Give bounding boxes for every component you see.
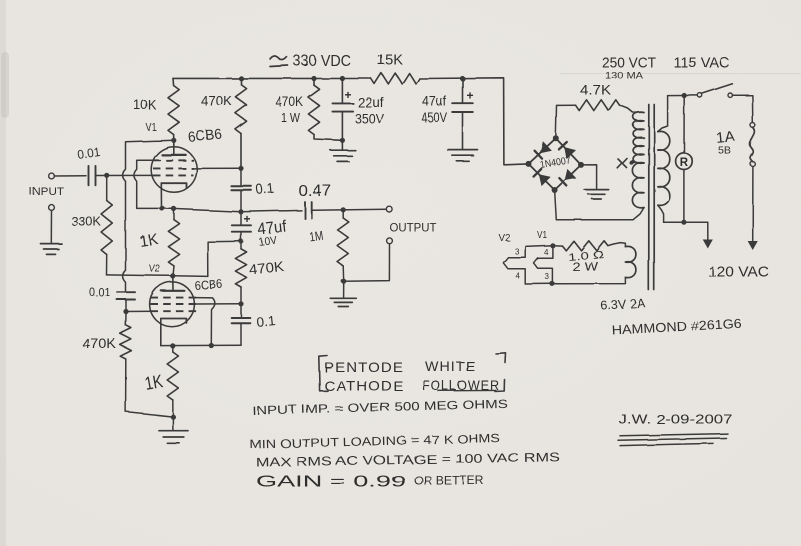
junction g3 tie	[209, 343, 214, 348]
ground below 47uf	[462, 112, 464, 149]
svg-text:6CB6: 6CB6	[194, 277, 223, 293]
tube V1 plate	[173, 140, 175, 155]
junction heater bottom	[550, 281, 555, 286]
terminal input hot	[49, 173, 55, 179]
junction V2 screen node	[238, 301, 243, 306]
tube V2 grid g2 screen (dashed)	[151, 303, 197, 305]
capacitor C 0.01 (input coupling)	[88, 166, 90, 185]
svg-text:PENTODE: PENTODE	[324, 359, 404, 375]
junction B+/47uf	[460, 76, 465, 81]
junction screen node	[238, 166, 243, 171]
capacitor C 0.1 (screen bypass)	[240, 168, 242, 186]
diode D4 (bottom-right)	[565, 170, 575, 180]
junction cathode/1K	[171, 206, 176, 211]
svg-text:4: 4	[544, 248, 549, 257]
svg-text:R: R	[680, 157, 689, 169]
wire cathode node to 0.47 cap	[241, 210, 302, 211]
capacitor C 47uf 10V	[240, 212, 242, 225]
tube V1 cathode	[161, 183, 186, 188]
pilot lamp R	[683, 96, 685, 153]
diode D1 (top-left)	[541, 142, 551, 152]
transformer core	[648, 105, 650, 291]
svg-text:V2: V2	[499, 232, 511, 244]
wire primary top row	[668, 94, 698, 96]
junction heater top	[550, 243, 555, 248]
svg-text:10V: 10V	[258, 234, 278, 248]
bridge rectifier 1N4007 diamond	[529, 138, 582, 190]
capacitor C 0.1 (V2 screen bypass)	[240, 304, 242, 318]
capacitor C 0.47 (output coupling)	[304, 202, 306, 218]
resistor 1K (upper)	[173, 209, 175, 220]
svg-text:330K: 330K	[71, 215, 102, 229]
svg-text:V1: V1	[537, 230, 547, 241]
junction B+/470K grid resistor	[238, 76, 243, 81]
wire V2 screen to 0.1/470K node	[196, 303, 241, 305]
svg-text:1K: 1K	[138, 231, 160, 251]
svg-text:4.7K: 4.7K	[580, 82, 612, 98]
wire V1 g3 to cathode	[134, 160, 162, 208]
svg-text:450V: 450V	[421, 110, 447, 125]
svg-text:350V: 350V	[355, 112, 384, 127]
wire output ground return	[344, 244, 390, 282]
svg-text:V1: V1	[146, 122, 157, 134]
wire V2 cathode row	[161, 344, 241, 346]
junction output/1M	[341, 207, 346, 212]
capacitor C 0.01 (interstage coupling)	[117, 291, 135, 293]
wire to input ground	[50, 210, 52, 242]
capacitor C 47uf 450V	[462, 79, 464, 103]
svg-text:V2: V2	[149, 263, 160, 275]
tube V1 grid g3 (dashed)	[153, 159, 194, 161]
resistor 1M (output load)	[342, 210, 344, 218]
resistor 470K (V1 screen feed)	[240, 78, 242, 84]
junction V1 cathode node	[238, 209, 243, 214]
fuse 1A SB	[751, 123, 756, 128]
wire switch to fuse branch	[732, 95, 752, 123]
wire bridge AC top to 4.7K	[556, 105, 576, 138]
ground at input	[41, 243, 62, 245]
resistor 10K (V1 plate load)	[172, 78, 175, 85]
svg-text:1M: 1M	[308, 228, 324, 245]
svg-text:4: 4	[516, 272, 521, 281]
junction V2 cathode/1K	[170, 343, 175, 348]
wire input to coupling cap	[54, 175, 86, 177]
svg-text:250 VCT: 250 VCT	[602, 55, 656, 72]
resistor 15K	[371, 73, 420, 84]
resistor 1.0 ohm 2W	[562, 241, 608, 251]
svg-text:+: +	[345, 88, 352, 102]
junction bridge corners	[526, 161, 532, 167]
tube V2 grid g1 (dashed)	[151, 310, 197, 312]
wire bridge minus to ground	[581, 165, 597, 189]
svg-text:6.3V 2A: 6.3V 2A	[600, 297, 646, 313]
tube V2 cathode	[161, 319, 187, 324]
wire V1 cathode row	[162, 208, 242, 211]
svg-text:CATHODE: CATHODE	[324, 378, 404, 394]
resistor 1K (lower)	[172, 346, 174, 352]
terminal output ground side	[387, 238, 393, 244]
svg-text:47uf: 47uf	[422, 94, 446, 109]
wire bootstrap row (V2 plate node)	[107, 275, 208, 277]
svg-text:INPUT: INPUT	[29, 186, 64, 198]
wire V1 screen to 470K/0.1 node	[194, 167, 242, 169]
junction B+/470K 1W	[311, 76, 316, 81]
transformer secondary 250VCT upper half	[633, 112, 644, 163]
resistor 330K (bootstrapped grid leak)	[106, 175, 108, 200]
tube V1 grid g1 (dashed)	[153, 174, 194, 176]
wire 4.7K to secondary top	[620, 105, 633, 112]
svg-text:3: 3	[545, 272, 550, 281]
label ~330VDC	[270, 56, 287, 60]
wire V2 g3 to cathode (hop over screen wire)	[196, 298, 214, 346]
svg-text:0.1: 0.1	[255, 181, 275, 199]
svg-text:5B: 5B	[718, 145, 731, 157]
arrow to 120VAC neutral	[704, 240, 712, 248]
svg-text:470K: 470K	[201, 94, 232, 109]
junction lamp branch	[682, 93, 687, 98]
ground at bridge	[585, 189, 609, 191]
tube V2 grid g3 (dashed)	[151, 297, 197, 299]
wire fuse to line	[752, 167, 754, 242]
svg-text:+: +	[244, 212, 251, 226]
svg-text:22uf: 22uf	[358, 94, 384, 110]
svg-text:115 VAC: 115 VAC	[674, 55, 730, 72]
svg-text:+: +	[467, 89, 474, 103]
junction 22uf/470K-1W bottom	[340, 138, 345, 143]
wire V2 grid	[126, 310, 155, 312]
svg-text:J.W. 2-09-2007: J.W. 2-09-2007	[619, 413, 733, 427]
junction V2 plate/1K bottom	[170, 273, 175, 278]
svg-text:WHITE: WHITE	[425, 358, 476, 374]
ground below 1M	[343, 281, 345, 297]
svg-text:0.47: 0.47	[298, 183, 331, 200]
junction 47uf bottom	[239, 239, 244, 244]
junction V2 grid node	[123, 309, 128, 314]
svg-text:0.1: 0.1	[256, 313, 276, 330]
svg-text:470K: 470K	[276, 95, 304, 110]
wire 47uf bottom to bootstrap row	[208, 241, 241, 276]
wire cap to V1 grid	[96, 174, 156, 176]
tube V1 6CB6 envelope	[151, 147, 197, 193]
wire heater top node to 1 ohm	[552, 244, 562, 246]
resistor 4.7K	[576, 100, 620, 111]
title bracket right	[496, 353, 506, 363]
junction V1 plate node	[171, 138, 176, 143]
transformer primary 115V winding	[658, 131, 670, 205]
svg-text:470K: 470K	[82, 336, 116, 351]
wire B+ 330VDC bus	[173, 77, 371, 79]
svg-text:2 W: 2 W	[572, 262, 598, 274]
diode D3 (bottom-left)	[540, 175, 550, 185]
svg-text:120 VAC: 120 VAC	[708, 265, 769, 281]
transformer secondary 250VCT lower half	[632, 163, 644, 208]
arrow to 120VAC line	[749, 242, 757, 250]
junction B+/22uf	[340, 76, 345, 81]
svg-text:130 MA: 130 MA	[605, 71, 644, 82]
diode D2 (top-right)	[565, 148, 575, 158]
junction input/330K	[104, 173, 109, 178]
svg-text:3: 3	[515, 247, 520, 256]
tube V1 heater loop (pins 4-3)	[534, 245, 553, 283]
tube V2 heater loop (pins 3-4)	[503, 245, 552, 284]
svg-text:1 W: 1 W	[281, 110, 301, 125]
svg-text:15K: 15K	[377, 52, 403, 69]
tube V2 6CB6 envelope	[150, 282, 195, 327]
tube V2 plate	[172, 276, 174, 291]
transformer heater winding 6.3V	[625, 246, 636, 277]
ground below V2	[172, 417, 174, 430]
resistor 470K 1W	[313, 79, 315, 86]
ground below 22uf	[341, 140, 343, 149]
wire 0.47 to output terminal	[312, 209, 387, 210]
underline FOLLOWER	[438, 389, 496, 391]
switch SPST	[698, 93, 702, 97]
svg-text:10K: 10K	[134, 97, 158, 113]
terminal input ground side	[49, 205, 55, 211]
svg-text:GAIN = 0.99: GAIN = 0.99	[256, 474, 406, 491]
svg-text:0.01: 0.01	[90, 286, 111, 300]
junction 1M/ground	[341, 279, 346, 284]
capacitor C 22uf 350V	[341, 79, 343, 104]
svg-text:330 VDC: 330 VDC	[293, 53, 351, 70]
svg-text:OUTPUT: OUTPUT	[390, 223, 437, 235]
signature underline strokes	[620, 434, 728, 436]
terminal output hot	[386, 206, 392, 212]
tube V1 grid g2 screen (dashed)	[153, 167, 194, 169]
transformer secondary center tap (X = unused)	[629, 160, 634, 165]
title bracket left	[319, 356, 328, 391]
junction lamp/primary bottom	[681, 220, 686, 225]
resistor 470K (V2 screen)	[240, 241, 242, 249]
resistor 470K (V2 grid leak)	[125, 312, 127, 326]
junction 1K/470K to ground	[170, 414, 175, 419]
svg-text:OR BETTER: OR BETTER	[414, 474, 484, 488]
wire primary bottom row	[664, 222, 708, 240]
wire V1 plate to coupling cap (with crossovers)	[123, 140, 174, 291]
wire bridge AC bottom to secondary bottom	[555, 190, 633, 220]
